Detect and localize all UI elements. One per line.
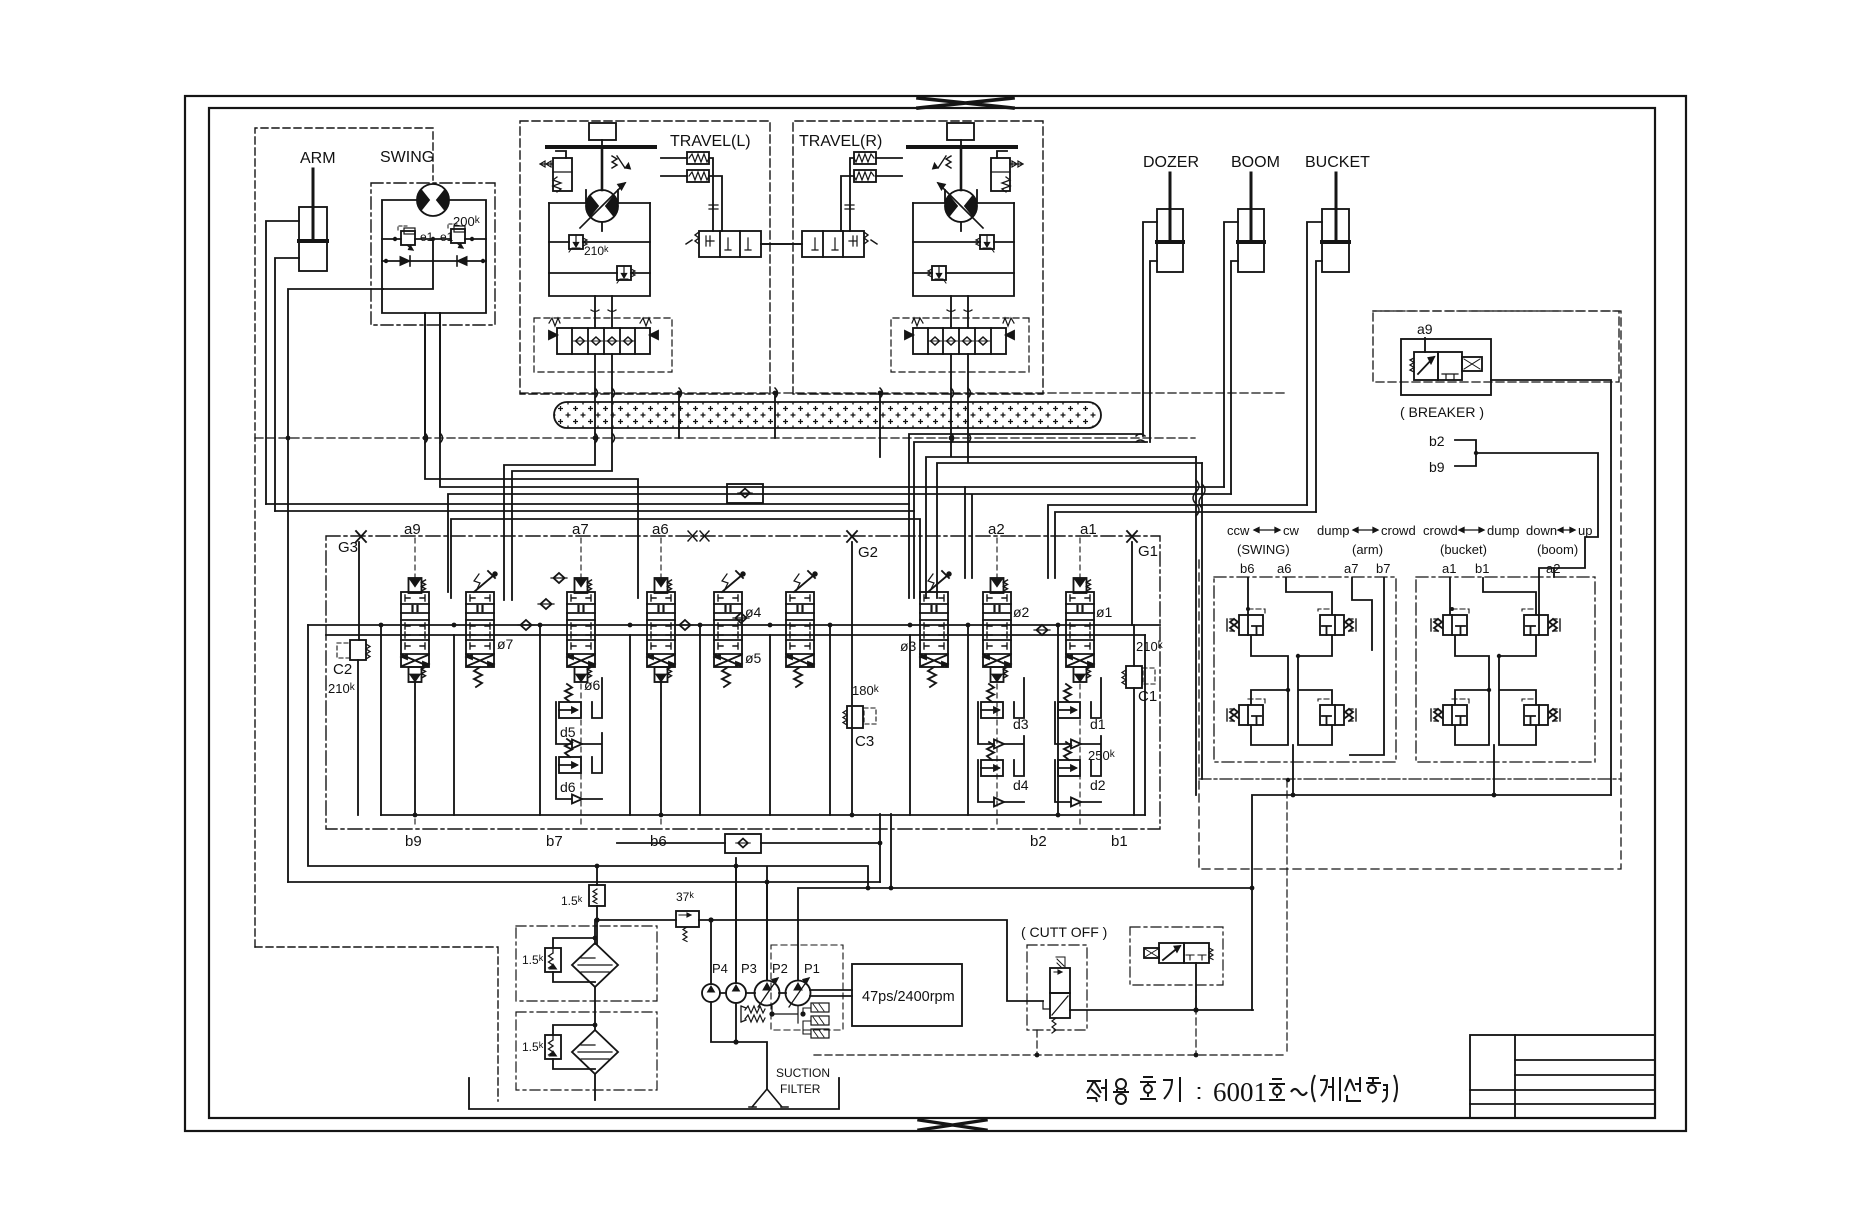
svg-text:ø6: ø6 — [584, 677, 601, 693]
swing block dash-dot box — [371, 183, 495, 325]
svg-text:ø7: ø7 — [497, 636, 514, 652]
relief valve e1 (right) — [448, 224, 465, 248]
) — [1394, 1075, 1397, 1102]
korean note: 적용호기 : 6001호~(개선형) — [1087, 1077, 1199, 1104]
wire swing crossover — [382, 239, 486, 289]
wire band: travelR to right drop — [926, 394, 1202, 598]
svg-text:ARM: ARM — [300, 150, 336, 167]
wire band: arm pair — [266, 504, 920, 598]
cylinder BUCKET — [1322, 173, 1349, 272]
svg-text:C3: C3 — [855, 733, 874, 750]
valve spool a7 — [567, 592, 595, 667]
svg-text:dump: dump — [1487, 523, 1520, 538]
tank boundary — [469, 1078, 839, 1109]
gallery left frame — [288, 625, 880, 888]
svg-text:e1: e1 — [440, 230, 454, 244]
junction dots bottom — [593, 917, 1199, 1044]
pump dashed box — [771, 945, 843, 1030]
check valve box upper — [727, 484, 763, 503]
relief C2 — [337, 640, 370, 660]
check valve box lower b6 line — [617, 814, 891, 888]
pump regulator springs — [741, 1006, 765, 1022]
pump P1 (variable) — [786, 978, 811, 1007]
svg-text:C1: C1 — [1138, 688, 1157, 705]
pump risers — [711, 858, 1252, 984]
relief 210k — [569, 235, 587, 252]
wire band: bucket pair — [1048, 505, 1316, 578]
svg-text:a1: a1 — [1442, 561, 1456, 576]
wire b2 b9 bracket — [1455, 440, 1598, 614]
return gallery — [381, 814, 1145, 816]
svg-text:SUCTION: SUCTION — [776, 1066, 830, 1080]
wire band: dozer pair — [909, 434, 1147, 598]
valve solenoid unload — [1130, 927, 1223, 1010]
pilot valve bucket-b1 — [1431, 705, 1467, 725]
wire pilot internals left — [1251, 636, 1332, 795]
용 — [1116, 1079, 1126, 1089]
pilot drain dash-dot — [1199, 778, 1621, 780]
check under d5 — [572, 740, 582, 749]
svg-text:BOOM: BOOM — [1231, 154, 1280, 171]
svg-text:C2: C2 — [333, 661, 352, 678]
drain dashed bottom — [814, 780, 1287, 1055]
counterbalance body — [549, 203, 650, 296]
svg-text:b1: b1 — [1111, 833, 1128, 850]
svg-text:P3: P3 — [741, 961, 757, 976]
svg-text:(SWING): (SWING) — [1237, 542, 1290, 557]
relief C1 — [1122, 666, 1155, 688]
relief low — [617, 266, 635, 283]
brake cylinder — [540, 151, 572, 192]
svg-text:TRAVEL(R): TRAVEL(R) — [799, 133, 882, 150]
wire ARM ports — [266, 221, 299, 511]
regulator links — [772, 1006, 798, 1023]
check valves on crossover — [400, 256, 410, 266]
wire breaker out — [1491, 380, 1611, 795]
wire BOOM ports — [1224, 222, 1238, 494]
svg-text:crowd: crowd — [1423, 523, 1458, 538]
svg-text:G3: G3 — [338, 539, 358, 556]
svg-text:SWING: SWING — [380, 149, 434, 166]
pilot box right (bucket/boom) — [1416, 577, 1595, 762]
valve spool o4/o5 (lever) — [714, 592, 742, 667]
svg-text:down: down — [1526, 523, 1557, 538]
pilot valve boom-b2 — [1524, 705, 1560, 725]
svg-text:dump: dump — [1317, 523, 1350, 538]
wire block to strip — [595, 296, 612, 394]
pilot valve swing-a6 — [1227, 705, 1263, 725]
junction dots on buses — [286, 391, 954, 441]
svg-text:a6: a6 — [652, 521, 669, 538]
relief d4 — [981, 742, 1003, 776]
svg-text:FILTER: FILTER — [780, 1082, 821, 1096]
check under d6 — [572, 795, 582, 804]
wire band: travelL — [504, 394, 612, 600]
wires right side — [661, 158, 722, 231]
border outer frame — [185, 96, 1686, 1131]
node G2 — [847, 531, 857, 542]
형 — [1366, 1078, 1381, 1083]
engine shaft double line — [810, 990, 852, 996]
valve spool o7 (lever) — [466, 592, 494, 667]
svg-text:a7: a7 — [572, 521, 589, 538]
svg-text:cw: cw — [1283, 523, 1300, 538]
relief d2 — [1058, 742, 1080, 776]
svg-text:d4: d4 — [1013, 777, 1029, 793]
motor travel — [580, 183, 625, 228]
suction filter symbol — [749, 1089, 788, 1107]
spring boxes right — [687, 152, 709, 182]
valve CUTT OFF — [1027, 945, 1087, 1033]
valve spool a2 — [983, 592, 1011, 667]
svg-text:a6: a6 — [1277, 561, 1291, 576]
svg-text:P2: P2 — [772, 961, 788, 976]
( — [1312, 1075, 1315, 1102]
valve spool a6 — [647, 592, 675, 667]
pilot bus dashed upper — [520, 392, 1287, 394]
valve spool a1 — [1066, 592, 1094, 667]
svg-text:a2: a2 — [988, 521, 1005, 538]
wire swing left port to bus — [288, 289, 383, 882]
wire travel drops to bus — [679, 394, 880, 457]
svg-text:b9: b9 — [1429, 459, 1445, 475]
filter upper dashed box — [516, 926, 657, 1001]
svg-text:ø5: ø5 — [745, 650, 762, 666]
svg-text:ccw: ccw — [1227, 523, 1250, 538]
svg-text:47ps/2400rpm: 47ps/2400rpm — [862, 989, 955, 1005]
pilot label arrows — [1254, 528, 1575, 533]
svg-text:b1: b1 — [1475, 561, 1489, 576]
svg-text:b7: b7 — [1376, 561, 1390, 576]
relief d1 — [1058, 684, 1080, 718]
pump P4 — [702, 984, 720, 1002]
feed gallery lines — [308, 625, 1160, 635]
dashed enclosure left (ARM/SWING piping) — [255, 128, 498, 1101]
filter F2 — [572, 1030, 618, 1074]
spool travel pilot — [686, 231, 761, 257]
engine box 47ps/2400rpm — [852, 964, 962, 1026]
svg-text:a1: a1 — [1080, 521, 1097, 538]
wire cutoff out — [1070, 1009, 1253, 1011]
wire band: swing pair — [425, 313, 965, 598]
svg-text:DOZER: DOZER — [1143, 154, 1199, 171]
svg-text:d2: d2 — [1090, 777, 1106, 793]
svg-text:b9: b9 — [405, 833, 422, 850]
junction dots pilot — [1250, 654, 1502, 891]
svg-text:ø3: ø3 — [900, 638, 917, 654]
orifice stack — [803, 1003, 829, 1038]
wire pilot feeds right box — [1450, 568, 1554, 614]
pump P3 — [726, 983, 746, 1003]
travel dashed box — [520, 121, 770, 394]
remote control big dashed box — [1199, 311, 1621, 869]
wire valve bottom left returns — [736, 866, 767, 983]
wire right drop to pilot area — [1196, 457, 1202, 795]
node G1 — [1127, 531, 1137, 542]
pilot valve arm-b7 — [1320, 705, 1356, 725]
bypass valve F2 — [545, 1035, 561, 1059]
svg-text:b2: b2 — [1429, 433, 1445, 449]
svg-text:b2: b2 — [1030, 833, 1047, 850]
svg-text:e1: e1 — [420, 230, 434, 244]
valve spool o3 travel (lever) — [920, 592, 948, 667]
relief 37k — [676, 911, 699, 942]
호 (after 6001) — [1269, 1079, 1285, 1087]
axle bar — [547, 145, 655, 149]
pilot group labels — [1227, 523, 1592, 576]
svg-text:up: up — [1578, 523, 1592, 538]
svg-text:crowd: crowd — [1381, 523, 1416, 538]
pilot box left (swing/arm) — [1214, 577, 1396, 762]
TRAVEL(L) block — [520, 121, 802, 394]
gear box top — [589, 123, 616, 140]
svg-text:(arm): (arm) — [1352, 542, 1383, 557]
cut mark bottom — [919, 1120, 986, 1130]
pilot bus dashed lower — [255, 437, 1195, 439]
svg-text:(boom): (boom) — [1537, 542, 1578, 557]
relief d6 — [559, 739, 581, 773]
TRAVEL(R) block (mirrored copy) — [761, 121, 1043, 394]
main control valve dash-dot boundary — [326, 536, 1160, 829]
hatched crawler bar — [554, 402, 1101, 428]
swing block body — [382, 200, 486, 313]
pump shafts — [720, 992, 786, 994]
svg-text:ø2: ø2 — [1013, 604, 1030, 620]
wire filters chain — [594, 920, 596, 1100]
wires d3 d1 d4 d2 — [978, 678, 1024, 802]
호 — [1140, 1077, 1156, 1086]
wire cb internals — [549, 242, 650, 273]
check valves on gallery — [518, 620, 534, 630]
valve spool s6 (lever) — [786, 592, 814, 667]
motor swing M1 — [417, 184, 449, 216]
svg-text:b6: b6 — [1240, 561, 1254, 576]
svg-text:TRAVEL(L): TRAVEL(L) — [670, 133, 751, 150]
wire pilot feeds left box — [1248, 578, 1384, 755]
svg-text:d5: d5 — [560, 724, 576, 740]
cylinder ARM — [299, 169, 327, 271]
: — [1198, 1087, 1201, 1099]
pilot sense lines dashed — [1248, 609, 1533, 704]
cylinder BOOM — [1238, 173, 1264, 272]
svg-text:( BREAKER ): ( BREAKER ) — [1400, 404, 1484, 420]
bottom check strip — [549, 318, 658, 354]
cylinder DOZER — [1157, 173, 1183, 272]
node G3 — [356, 531, 366, 542]
svg-text:b6: b6 — [650, 833, 667, 850]
pilot valve arm-a7 — [1320, 615, 1356, 635]
filter F1 — [572, 943, 618, 987]
wire motor loop — [586, 190, 618, 231]
filter lower dashed box — [516, 1012, 657, 1090]
hose joints on bus crossings — [425, 388, 1205, 516]
displacement spring arrow — [612, 156, 625, 168]
wire spool out — [761, 243, 802, 245]
relief valve e1 (left) — [398, 226, 415, 250]
wire swing bottom ports — [425, 313, 440, 436]
svg-text:6001: 6001 — [1213, 1077, 1267, 1107]
pump P2 (variable) — [755, 978, 780, 1007]
border inner frame — [209, 108, 1655, 1118]
svg-text:a9: a9 — [1417, 321, 1433, 337]
relief C3 — [843, 706, 876, 728]
wire pilot supply line — [597, 920, 1043, 1001]
section frame verticals — [381, 625, 1145, 815]
svg-text:d6: d6 — [560, 779, 576, 795]
cut mark top — [918, 98, 1013, 108]
leader dashed lines spool centers — [415, 538, 1080, 828]
~ — [1291, 1089, 1307, 1095]
wire BUCKET ports — [1307, 222, 1322, 512]
개 — [1320, 1077, 1340, 1101]
wire pilot collector — [1252, 795, 1611, 1010]
bypass valve F1 — [545, 948, 561, 972]
기 — [1163, 1077, 1180, 1102]
pilot valve swing-b6 — [1227, 615, 1263, 635]
title block — [1470, 1035, 1655, 1118]
relief d5 — [559, 684, 581, 718]
valve spool a9 — [401, 592, 429, 667]
hose cross marks on pilot line — [688, 531, 709, 541]
strip dashed box — [534, 318, 672, 372]
relief d3 — [981, 684, 1003, 718]
pilot valve boom-a2 — [1524, 615, 1560, 635]
svg-text:G2: G2 — [858, 544, 878, 561]
svg-text:a9: a9 — [404, 521, 421, 538]
wires d5 d6 — [556, 678, 602, 799]
적 — [1087, 1079, 1106, 1102]
svg-text:b7: b7 — [546, 833, 563, 850]
svg-text:(bucket): (bucket) — [1440, 542, 1487, 557]
svg-text:P1: P1 — [804, 961, 820, 976]
svg-text:a7: a7 — [1344, 561, 1358, 576]
wire band: boom pair — [448, 487, 1231, 592]
relief 1.5k vertical — [589, 866, 605, 944]
svg-text:ø1: ø1 — [1096, 604, 1113, 620]
pilot valve bucket-a1 — [1431, 615, 1467, 635]
valve a9 BREAKER — [1373, 311, 1619, 395]
wire DOZER ports — [1143, 222, 1157, 442]
suction manifold — [711, 1002, 767, 1089]
svg-text:( CUTT OFF ): ( CUTT OFF ) — [1021, 924, 1107, 940]
선 — [1345, 1077, 1361, 1101]
svg-text:G1: G1 — [1138, 543, 1158, 560]
svg-text:P4: P4 — [712, 961, 728, 976]
wire pilot internals right — [1455, 636, 1536, 795]
svg-text:BUCKET: BUCKET — [1305, 154, 1370, 171]
